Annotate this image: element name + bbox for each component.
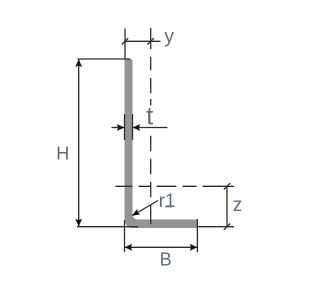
svg-text:y: y (164, 27, 174, 48)
svg-text:z: z (233, 195, 243, 216)
svg-text:B: B (160, 250, 172, 270)
svg-text:t: t (146, 102, 153, 130)
svg-text:H: H (56, 144, 69, 164)
svg-text:r1: r1 (159, 191, 176, 212)
